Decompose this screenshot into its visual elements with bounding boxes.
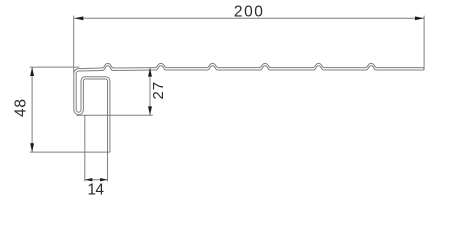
svg-text:14: 14 xyxy=(87,182,104,199)
svg-text:200: 200 xyxy=(234,3,265,20)
svg-text:48: 48 xyxy=(12,98,29,117)
svg-text:27: 27 xyxy=(150,81,167,99)
